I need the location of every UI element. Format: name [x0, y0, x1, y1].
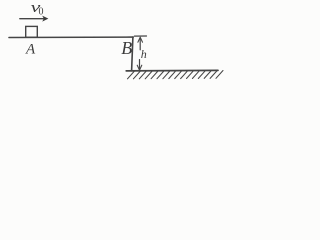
ground hatching: [128, 71, 224, 79]
cliff edge wire: [132, 37, 133, 71]
svg-text:A: A: [25, 41, 36, 57]
ground line: [126, 69, 218, 72]
down arrow of h: [139, 60, 141, 69]
block: [26, 26, 38, 37]
svg-text:B: B: [121, 38, 132, 58]
top reference tick: [134, 35, 146, 37]
table line: [9, 36, 133, 38]
velocity arrow: [20, 18, 45, 20]
up arrow of h: [139, 38, 141, 50]
svg-text:h: h: [141, 47, 147, 61]
